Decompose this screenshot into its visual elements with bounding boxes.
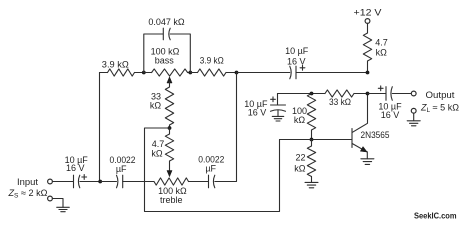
svg-text:2N3565: 2N3565 <box>361 130 390 140</box>
svg-text:3.9 kΩ: 3.9 kΩ <box>102 59 129 69</box>
svg-text:kΩ: kΩ <box>151 148 163 158</box>
treble wiper arrow <box>169 161 171 172</box>
wire C4 to right vertical wire <box>215 73 237 182</box>
output ground terminal <box>411 108 416 113</box>
ground (input) <box>52 199 63 208</box>
node H (base rail junction) <box>310 138 314 142</box>
wire node D to base rail (feedback path) <box>145 128 280 212</box>
capacitor C6 10 uF 16 V (bypass) <box>277 94 279 105</box>
svg-text:16 V: 16 V <box>381 110 400 120</box>
+12 V terminal <box>365 19 370 24</box>
wire C7 to output terminal <box>392 93 411 95</box>
node G (bias junction) <box>310 92 314 96</box>
input ground terminal <box>48 196 53 201</box>
wire collector node to C7 <box>368 93 386 95</box>
resistor R1 3.9 k&#937; (top left) <box>108 69 135 76</box>
potentiometer R6 100 k&#937; treble (element) <box>154 178 189 185</box>
transistor Q1 2N3565 base bar <box>351 129 353 148</box>
svg-text:22: 22 <box>295 152 305 162</box>
wire node C to coupling cap <box>237 72 290 74</box>
svg-text:kΩ: kΩ <box>376 47 388 57</box>
node B (bass pot right junction) <box>188 71 192 75</box>
svg-text:ZL ≈ 5 kΩ: ZL ≈ 5 kΩ <box>420 102 459 114</box>
svg-text:µF: µF <box>116 164 127 174</box>
node F (supply/rail junction) <box>366 71 370 75</box>
resistor R10 22 k&#937; (bias lower) <box>311 140 313 147</box>
svg-text:16 V: 16 V <box>248 108 267 118</box>
potentiometer R2 100 k&#937; bass (element) <box>144 72 152 74</box>
capacitor C3 0.0022 uF (left) <box>117 175 118 188</box>
wire C5 to node F <box>296 72 368 74</box>
input terminal <box>48 179 53 184</box>
node D (33k/4.7k junction) <box>168 126 172 130</box>
svg-text:3.9 kΩ: 3.9 kΩ <box>200 55 224 65</box>
ground (22k) <box>305 182 318 187</box>
svg-text:Input: Input <box>17 177 39 187</box>
wire node E to C3 <box>100 181 116 183</box>
svg-text:kΩ: kΩ <box>294 115 306 125</box>
ground (emitter) <box>361 159 374 165</box>
node A (bass pot left junction) <box>142 71 146 75</box>
wire top rail left corner + left vertical wire <box>99 73 101 182</box>
ground (output) <box>413 113 415 120</box>
svg-text:Output: Output <box>426 90 456 100</box>
wire base rail <box>280 139 352 141</box>
ground (bypass cap) <box>272 116 284 121</box>
transistor Q1 collector lead <box>352 94 367 133</box>
svg-text:16 V: 16 V <box>66 163 85 173</box>
svg-text:+12 V: +12 V <box>354 8 382 18</box>
wire emitter to ground <box>366 152 368 159</box>
svg-text:bass: bass <box>155 56 175 66</box>
svg-text:0.047 kΩ: 0.047 kΩ <box>148 17 185 27</box>
resistor R3 3.9 k&#937; (top right) <box>190 72 197 74</box>
capacitor C4 0.0022 uF (right) <box>208 175 210 188</box>
capacitor C5 10 uF 16 V (interstage coupling) <box>290 66 291 79</box>
node C (top-right rail junction) <box>235 71 239 75</box>
resistor R5 4.7 k&#937; (vertical) <box>169 128 171 134</box>
capacitor C2 10 uF 16 V (input coupling) <box>73 175 75 188</box>
svg-text:10 µF: 10 µF <box>285 46 309 56</box>
resistor R9 33 k&#937; (feedback to collector) <box>325 90 354 97</box>
svg-text:kΩ: kΩ <box>294 163 306 173</box>
wire C3 to treble pot <box>123 181 154 183</box>
resistor R7 4.7 k&#937; (collector load) <box>367 23 369 33</box>
output terminal <box>411 91 416 96</box>
resistor R8 100 k&#937; (bias upper) <box>307 94 315 131</box>
wire input to C2 <box>52 181 73 183</box>
svg-text:ZS ≈ 2 kΩ: ZS ≈ 2 kΩ <box>7 188 47 200</box>
transistor Q1 emitter lead <box>352 144 366 152</box>
svg-text:treble: treble <box>160 195 183 205</box>
svg-text:4.7: 4.7 <box>152 139 165 149</box>
wire collector node to 33k <box>278 93 326 95</box>
svg-text:µF: µF <box>205 164 216 174</box>
capacitor C1 0.047 k&#937; bridge (over bass pot) <box>144 34 163 73</box>
capacitor C7 10 uF 16 V (output coupling) <box>378 86 383 91</box>
wire C2 to node E <box>80 181 100 183</box>
svg-text:SeekIC.com: SeekIC.com <box>414 212 457 221</box>
wire treble pot to C4 <box>189 181 209 183</box>
resistor R4 33 k&#937; (vertical) <box>165 87 173 125</box>
svg-text:kΩ: kΩ <box>150 101 162 111</box>
node I (collector node) <box>366 92 370 96</box>
node E (input junction) <box>98 180 102 184</box>
svg-text:4.7: 4.7 <box>375 37 388 47</box>
svg-text:16 V: 16 V <box>287 56 306 66</box>
bass wiper arrow <box>167 77 172 83</box>
svg-text:33 kΩ: 33 kΩ <box>329 97 351 107</box>
